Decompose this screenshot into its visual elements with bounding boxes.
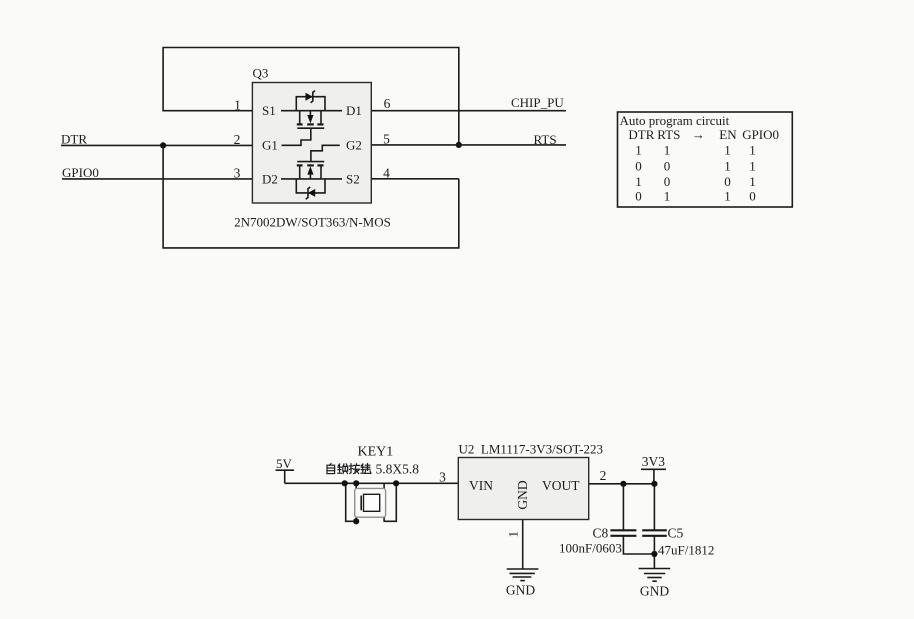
wire GPIO0 to pin 3 [62,178,252,180]
table header DTR RTS -> EN GPIO0 [628,127,779,142]
pin name G1 [262,138,278,153]
mosfet Q3b gate lead to G2 [311,145,340,161]
svg-text:DTR: DTR [628,127,654,142]
switch KEY1 symbol [346,483,397,521]
svg-text:D1: D1 [346,103,362,118]
pin name G2 [346,138,362,153]
mosfet Q3b rail D2-S2 [281,178,342,180]
table row 1 [635,142,756,157]
svg-text:RTS: RTS [657,127,680,142]
svg-text:3V3: 3V3 [642,454,665,469]
svg-text:0: 0 [664,159,671,174]
svg-text:0: 0 [724,174,731,189]
node GPIO0 [62,165,99,180]
svg-text:5V: 5V [276,456,293,471]
pin name D1 [346,103,362,118]
junction dots KEY1 [342,480,400,524]
mosfet Q3a drain contact [320,111,322,124]
node DTR [61,132,87,147]
table row 3 [635,174,756,189]
svg-text:S2: S2 [346,171,360,186]
value label 47uF/1812 [658,543,714,558]
mosfet Q3a body diode loop [296,97,325,111]
wire DTR to pin4 bottom loop [163,145,459,248]
svg-text:0: 0 [635,159,642,174]
svg-text:VOUT: VOUT [542,478,580,493]
svg-text:47uF/1812: 47uF/1812 [658,543,714,558]
svg-text:0: 0 [749,188,756,203]
svg-text:1: 1 [749,159,756,174]
svg-text:D2: D2 [262,171,278,186]
svg-text:1: 1 [234,97,241,112]
mosfet Q3b source contact [320,166,322,179]
wire pin 4 [372,178,459,180]
svg-text:1: 1 [664,142,671,157]
mosfet Q3a body diode cathode bar [311,91,315,103]
mosfet Q3b channel contact bars [297,164,324,166]
pin number 2 VOUT [600,468,607,483]
svg-text:3: 3 [234,166,241,181]
mosfet Q3b substrate arrow [307,166,313,179]
svg-text:GND: GND [506,583,535,598]
pin number 3 VIN [439,470,446,485]
svg-text:GPIO0: GPIO0 [742,127,779,142]
junction dot C5 bottom [651,551,657,557]
pin number 1 [234,97,241,112]
junction dot RTS loop [456,142,462,148]
svg-text:Auto program circuit: Auto program circuit [620,113,730,128]
svg-text:0: 0 [664,174,671,189]
svg-text:EN: EN [719,127,737,142]
mosfet Q3a source contact [299,111,301,124]
svg-text:GND: GND [640,584,669,599]
svg-text:KEY1: KEY1 [358,444,394,459]
svg-text:S1: S1 [262,103,276,118]
wire pin 6 CHIP_PU [372,110,566,112]
svg-text:C8: C8 [593,526,609,541]
node RTS [534,132,557,147]
svg-text:CHIP_PU: CHIP_PU [511,95,564,110]
reference designator Q3 [253,66,269,81]
reference designator KEY1 [358,444,394,459]
label GND C5 [640,584,669,599]
ground symbol U2 [507,569,539,581]
junction dot 3V3 [651,481,657,487]
wire U2 GND pin [522,520,524,569]
value label 5.8X5.8 [376,462,420,477]
svg-text:U2 LM1117-3V3/SOT-223: U2 LM1117-3V3/SOT-223 [459,442,603,457]
capacitor C5 [642,530,667,536]
label GND U2 [506,583,535,598]
mosfet Q3a channel contact bars [297,123,324,125]
svg-text:5: 5 [383,131,390,146]
wire pin1 to RTS top loop [163,48,459,145]
wire to C5 [653,484,655,531]
svg-text:1: 1 [635,174,642,189]
svg-text:C5: C5 [668,526,684,541]
wire C8 bottom [623,536,654,554]
svg-text:1: 1 [749,174,756,189]
svg-text:→: → [692,127,705,142]
power 3V3 [641,454,666,484]
svg-text:2N7002DW/SOT363/N-MOS: 2N7002DW/SOT363/N-MOS [234,215,391,230]
svg-text:0: 0 [635,188,642,203]
mosfet Q3a gate lead to G1 [282,128,311,145]
svg-text:VIN: VIN [469,478,493,493]
node CHIP_PU [511,95,564,110]
reference designator U2 LM1117-3V3/SOT-223 [459,442,603,457]
mosfet Q3b body diode triangle [308,189,315,197]
pin name D2 [262,171,278,186]
capacitor C8 [610,530,636,536]
regulator U2 box [458,458,588,520]
power 5V [276,456,295,483]
svg-text:4: 4 [383,166,390,181]
svg-text:100nF/0603: 100nF/0603 [559,541,622,556]
label C5 [668,526,684,541]
svg-text:3: 3 [439,470,446,485]
value label 2N7002DW/SOT363/N-MOS [234,215,391,230]
wire 5V to VIN pin 3 [285,482,459,484]
mosfet Q3b gate line [297,161,324,163]
svg-text:GND: GND [515,480,530,509]
pin number 3 [234,166,241,181]
table row 2 [635,159,756,174]
svg-text:DTR: DTR [61,132,87,147]
svg-text:1: 1 [749,142,756,157]
value label zisuo anjian chinese [327,464,371,474]
pin number 6 [384,96,391,111]
mosfet Q3b drain contact [299,166,301,179]
mosfet Q3b body diode cathode bar [306,187,310,199]
label C8 [593,526,609,541]
wire DTR to pin 2 [61,144,252,146]
wire pin 5 RTS [372,144,566,146]
mosfet Q3a rail S1-D1 [281,110,342,112]
svg-text:RTS: RTS [534,132,557,147]
transistor Q3 body box [252,83,371,204]
junction dot DTR [160,142,166,148]
svg-text:6: 6 [384,96,391,111]
svg-text:1: 1 [505,531,520,538]
svg-text:G1: G1 [262,138,278,153]
mosfet Q3b body diode loop [296,179,325,193]
pin number 1 GND rotated [505,531,520,538]
pin name VIN [469,478,493,493]
junction dot C8 top [620,481,626,487]
svg-text:2: 2 [234,132,241,147]
pin name GND rotated [515,480,530,509]
svg-text:1: 1 [724,142,731,157]
ground symbol C5 [639,569,671,582]
pin name S2 [346,171,360,186]
value label 100nF/0603 [559,541,622,556]
pin number 2 [234,132,241,147]
wire C5 bottom to ground [653,536,655,568]
wire VOUT pin 2 to 3V3 [589,483,655,485]
mosfet Q3a gate line [297,127,324,129]
svg-text:5.8X5.8: 5.8X5.8 [376,462,420,477]
pin number 4 [383,166,390,181]
pin name VOUT [542,478,580,493]
svg-text:1: 1 [724,159,731,174]
table Auto program circuit box [618,112,793,207]
svg-text:2: 2 [600,468,607,483]
svg-text:1: 1 [724,188,731,203]
pin number 5 [383,131,390,146]
table row 4 [635,188,756,203]
svg-text:1: 1 [635,142,642,157]
svg-text:1: 1 [664,188,671,203]
svg-text:GPIO0: GPIO0 [62,165,99,180]
mosfet Q3a substrate arrow [307,111,313,124]
wire to C8 [622,484,624,531]
table title Auto program circuit [620,113,730,128]
svg-text:G2: G2 [346,138,362,153]
mosfet Q3a body diode triangle [306,93,313,101]
svg-text:Q3: Q3 [253,66,269,81]
pin name S1 [262,103,276,118]
